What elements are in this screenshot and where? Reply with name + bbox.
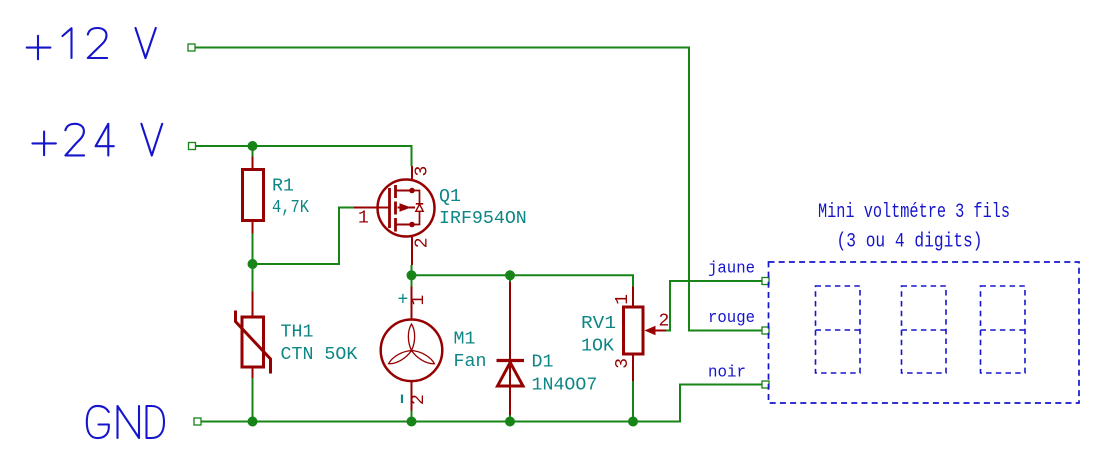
junction GND M1 [407,417,417,427]
wire M1 stubs [411,275,413,421]
svg-text:1: 1 [409,295,429,306]
svg-text:jaune: jaune [708,259,755,278]
label GND [87,406,164,438]
svg-text:noir: noir [708,363,746,382]
label +12 V [27,28,156,59]
svg-text:2: 2 [413,237,433,248]
svg-text:R1: R1 [272,177,294,197]
svg-text:4,7K: 4,7K [272,198,309,218]
wire Q1 drain node rail [412,265,634,287]
wire D1 stubs [509,275,511,421]
svg-text:(3 ou 4 digits): (3 ou 4 digits) [837,231,983,254]
svg-text:CTN 5OK: CTN 5OK [281,345,358,365]
transistor Q1 [354,166,435,265]
digit box 2 [902,286,947,373]
svg-text:IRF954ON: IRF954ON [439,209,527,229]
wire +24V rail [196,146,412,166]
junction GND D1 [505,417,515,427]
label TH1 value [281,323,358,366]
junction GND TH1 [248,417,258,427]
label +24 V [32,124,162,156]
junction node Q1/M1 [407,270,417,280]
voltmeter outline box [769,262,1080,403]
svg-text:RV1: RV1 [581,314,616,334]
wire node to TH1 [252,264,254,292]
svg-text:D1: D1 [532,353,554,373]
label D1 value [532,353,598,396]
svg-text:1: 1 [358,209,369,229]
svg-text:3: 3 [613,358,633,369]
pin square jaune [762,278,769,285]
digit box 3 [981,286,1026,373]
svg-text:rouge: rouge [708,309,755,328]
svg-text:1: 1 [613,294,633,305]
junction GND RV1 [628,417,638,427]
resistor R1 [243,157,264,234]
label Q1 value [439,187,527,229]
wire R1 top stub [252,146,254,157]
svg-text:2: 2 [659,312,670,332]
svg-text:Q1: Q1 [439,187,461,207]
thermistor TH1 [236,292,271,379]
svg-text:Mini voltmétre 3 fils: Mini voltmétre 3 fils [818,201,1010,224]
svg-text:+: + [398,291,409,311]
junction node D1 top [505,270,515,280]
open end square +12V [188,44,195,51]
junction node +24V/R1 [248,141,258,151]
svg-text:Fan: Fan [454,352,487,372]
svg-text:TH1: TH1 [281,323,314,343]
label R1 value [272,177,309,219]
pin square rouge [762,327,769,334]
diode D1 [497,282,525,415]
label M1 value [454,330,487,373]
svg-text:3: 3 [413,166,433,177]
wire wiper to jaune [666,281,762,331]
pin name - (M1) [401,395,403,404]
wire TH1 bottom [252,378,254,422]
open end square GND [194,418,201,425]
svg-text:1OK: 1OK [581,337,614,357]
pin square noir [762,381,769,388]
digit box 1 [816,286,861,373]
wire +12V rail [195,48,762,331]
junction node R1/TH1/gate [248,259,258,269]
potentiometer RV1 [624,287,667,382]
svg-text:M1: M1 [454,330,476,350]
motor M1 [381,287,443,411]
svg-text:1N4OO7: 1N4OO7 [532,376,598,396]
wire GND rail [201,385,762,422]
label RV1 value [581,314,616,357]
wire gate net [253,208,355,265]
open end square +24V [189,143,196,150]
wire R1 bottom to node [252,234,254,265]
svg-text:2: 2 [409,394,429,405]
wire RV1 pin3 [632,381,634,422]
